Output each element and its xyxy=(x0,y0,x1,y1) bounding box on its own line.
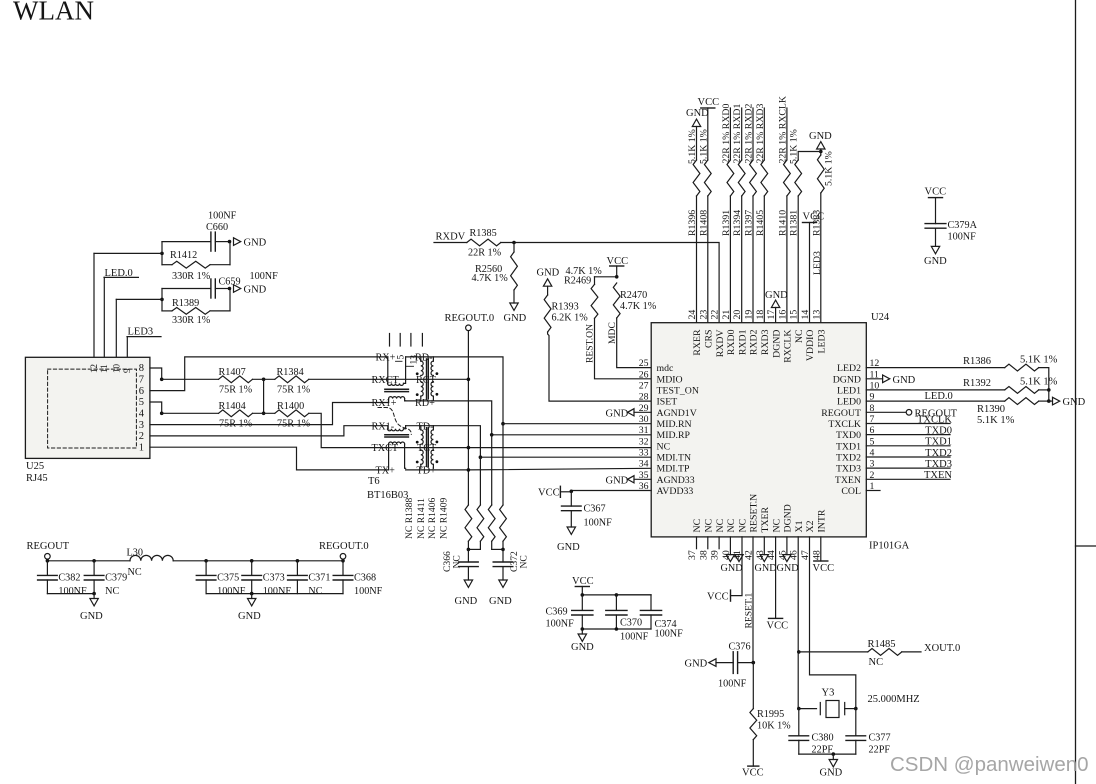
ground GND above R1381/R1383 xyxy=(809,131,832,155)
svg-text:100NF: 100NF xyxy=(546,619,575,630)
sheet border line xyxy=(1075,0,1077,784)
svg-text:5: 5 xyxy=(396,355,406,360)
wire TXD3 pin xyxy=(866,467,950,469)
pin 33 label MDI.TN xyxy=(639,447,691,463)
svg-text:1: 1 xyxy=(139,442,144,453)
svg-text:AVDD33: AVDD33 xyxy=(657,486,694,497)
transformer T6 RX choke winding xyxy=(385,357,409,403)
svg-text:DGND: DGND xyxy=(783,504,794,532)
wire TD- to R1411 xyxy=(479,457,481,505)
junction RXDV/R2560 xyxy=(512,241,516,245)
net label RXD2 / wire above R1397 xyxy=(752,108,754,160)
resistor R2469 xyxy=(591,277,617,319)
wire R1389 loop verticals xyxy=(162,289,230,311)
svg-text:R1995: R1995 xyxy=(757,709,784,720)
pin 38 NC stub xyxy=(707,537,709,549)
svg-text:21: 21 xyxy=(721,310,732,320)
svg-text:22R 1% RXD3: 22R 1% RXD3 xyxy=(755,104,766,164)
transformer T6 TX choke winding xyxy=(385,426,409,470)
svg-text:RESET.1: RESET.1 xyxy=(744,592,755,628)
net label LED3 left xyxy=(127,327,161,338)
svg-text:VDDIO: VDDIO xyxy=(805,330,816,362)
pin 7 label TXCLK xyxy=(828,414,874,430)
junction R1407/R1384 xyxy=(262,378,266,382)
svg-text:TXD0: TXD0 xyxy=(836,430,861,441)
transformer T6 RX transformer windings xyxy=(416,357,438,401)
ground GND at AGND1V pin 29 xyxy=(606,408,652,419)
capacitor C366 (NC) xyxy=(459,549,479,580)
wire pin 42 RESET.N down xyxy=(752,537,754,663)
pin 41 label NC (rotated) xyxy=(732,519,748,560)
resistor R1385 xyxy=(467,239,501,246)
svg-text:75R 1%: 75R 1% xyxy=(219,418,253,429)
resistor R1388 (NC) xyxy=(465,505,472,541)
connector U25 RJ45 body xyxy=(25,357,149,458)
svg-text:NC: NC xyxy=(308,586,322,597)
wire U25 pin1 to TX+ row xyxy=(150,447,388,470)
svg-text:NC: NC xyxy=(692,519,703,533)
svg-text:MDI.TN: MDI.TN xyxy=(657,452,692,463)
svg-text:RD-: RD- xyxy=(415,353,433,364)
svg-text:Y3: Y3 xyxy=(822,688,835,699)
svg-text:VCC: VCC xyxy=(538,488,560,499)
svg-text:C373: C373 xyxy=(263,573,285,584)
svg-text:7: 7 xyxy=(139,375,144,386)
svg-text:R1393: R1393 xyxy=(552,302,579,313)
svg-text:26: 26 xyxy=(639,369,649,380)
capacitor C368 xyxy=(333,561,353,594)
svg-text:L30: L30 xyxy=(127,548,143,559)
svg-text:TEST_ON: TEST_ON xyxy=(657,385,699,396)
resistor R1405 xyxy=(761,160,768,196)
svg-text:28: 28 xyxy=(639,392,649,403)
wire junction down xyxy=(1048,390,1050,401)
svg-text:VCC: VCC xyxy=(742,768,764,779)
svg-text:5.1K 1%: 5.1K 1% xyxy=(1020,377,1058,388)
svg-text:RXCT: RXCT xyxy=(372,375,400,386)
svg-text:DGND: DGND xyxy=(771,330,782,358)
pin 20 label RXD1 (rotated) xyxy=(732,310,748,355)
svg-text:REGOUT: REGOUT xyxy=(821,408,861,419)
svg-text:DGND: DGND xyxy=(833,374,861,385)
junction X1/R1485 xyxy=(797,650,801,654)
pin 19 label RXD2 (rotated) xyxy=(744,310,760,355)
svg-text:COL: COL xyxy=(841,486,861,497)
wire R1406/R1409 join xyxy=(492,541,503,549)
svg-text:TXCLK: TXCLK xyxy=(828,419,861,430)
svg-text:22R 1% RXD0: 22R 1% RXD0 xyxy=(721,104,732,164)
svg-text:R1412: R1412 xyxy=(170,250,197,261)
pin 24 label RXER (rotated) xyxy=(687,310,703,356)
svg-text:R1385: R1385 xyxy=(470,228,497,239)
svg-text:RXD3: RXD3 xyxy=(760,329,771,355)
pin 16 label RXCLK (rotated) xyxy=(777,310,793,363)
wire cap trio bottom bus xyxy=(582,628,651,630)
svg-text:34: 34 xyxy=(639,459,649,470)
pin 40 label NC (rotated) xyxy=(721,519,737,560)
wire AVDD33 pin 36 xyxy=(571,490,651,492)
wire U25 pin3 to RX1+ row xyxy=(150,403,389,425)
svg-text:R1407: R1407 xyxy=(219,367,246,378)
wire rail ground bus left xyxy=(47,593,94,595)
svg-text:16: 16 xyxy=(777,310,788,320)
svg-text:RX+: RX+ xyxy=(376,353,396,364)
junction R1412 left xyxy=(160,252,164,256)
pin 36 label AVDD33 xyxy=(639,481,694,497)
wire U25 pin4 to R1404 xyxy=(162,412,219,414)
wire U25 pin2 to RX1- row xyxy=(150,426,388,436)
svg-text:15: 15 xyxy=(789,310,800,320)
resistor R1400 xyxy=(275,410,309,417)
ground GND crystal xyxy=(820,754,843,778)
svg-text:RCT: RCT xyxy=(416,375,437,386)
wire R1400 to TXCT row xyxy=(309,413,651,447)
wire TXD2 pin xyxy=(866,456,950,458)
resistor R1412 xyxy=(162,261,230,268)
pin 39 label NC (rotated) xyxy=(710,519,726,560)
resistor R1410 xyxy=(784,160,791,196)
svg-text:LED.0: LED.0 xyxy=(925,391,953,402)
pin 26 label MDIO xyxy=(639,369,683,385)
ground GND below R2560 xyxy=(504,290,527,324)
ground GND cap trio xyxy=(571,629,594,653)
ground GND at DGND pin 17 xyxy=(765,290,788,323)
resistor R1411 (NC) xyxy=(477,505,484,541)
svg-text:75R 1%: 75R 1% xyxy=(219,384,253,395)
wire R1485 to XOUT.0 xyxy=(902,651,921,653)
svg-text:14: 14 xyxy=(800,310,811,320)
pin 44 label NC (rotated) xyxy=(766,519,782,560)
svg-text:R1390: R1390 xyxy=(977,404,1005,415)
junction R1409 bottom xyxy=(501,548,505,552)
wire R1381 top bend xyxy=(798,152,821,161)
svg-text:TXD0: TXD0 xyxy=(925,425,952,436)
pin 42 label RESET.N (rotated) xyxy=(744,494,760,560)
svg-text:VCC: VCC xyxy=(698,97,720,108)
ground GND left group xyxy=(80,594,103,622)
wire R1391 to pin 21 xyxy=(729,196,731,323)
svg-text:22R 1% RXD2: 22R 1% RXD2 xyxy=(744,104,755,164)
svg-text:100NF: 100NF xyxy=(655,629,684,640)
svg-text:REGOUT.0: REGOUT.0 xyxy=(445,313,495,324)
svg-text:RXER: RXER xyxy=(692,329,703,356)
junction C660 right xyxy=(228,240,232,244)
svg-text:R1392: R1392 xyxy=(963,378,991,389)
capacitor C369 xyxy=(572,595,593,629)
svg-text:NC: NC xyxy=(726,519,737,533)
svg-text:MID.RP: MID.RP xyxy=(657,430,691,441)
pin 9 label LED0 xyxy=(837,392,874,408)
ground GND below C367 xyxy=(557,527,580,553)
transformer T6 isolation dashed curve xyxy=(378,408,411,435)
svg-text:VCC: VCC xyxy=(803,212,825,223)
wire R1412 loop verticals xyxy=(162,242,230,265)
junction RD+ branch to MID.RP xyxy=(490,433,494,437)
svg-text:30: 30 xyxy=(639,414,649,425)
svg-text:mdc: mdc xyxy=(657,363,675,374)
pin 39 NC stub xyxy=(718,537,720,549)
svg-text:100NF: 100NF xyxy=(217,586,246,597)
capacitor C367 xyxy=(562,492,582,527)
svg-text:RXD0: RXD0 xyxy=(726,329,737,355)
svg-text:GND: GND xyxy=(571,642,594,653)
svg-text:NC R1388: NC R1388 xyxy=(404,497,415,539)
ground GND right group xyxy=(238,594,261,622)
wire RD+ to R1406 xyxy=(491,435,493,505)
svg-text:R1400: R1400 xyxy=(277,401,304,412)
svg-text:9: 9 xyxy=(122,368,132,373)
ground GND at C660 xyxy=(234,238,267,249)
pin 43 label TXER (rotated) xyxy=(755,506,771,560)
svg-text:GND: GND xyxy=(537,268,560,279)
svg-text:38: 38 xyxy=(698,550,709,560)
wire R1995 to VCC xyxy=(752,740,754,767)
capacitor C370 xyxy=(606,595,627,629)
svg-text:NC: NC xyxy=(794,330,805,344)
svg-text:REGOUT.0: REGOUT.0 xyxy=(319,541,369,552)
pin 1 COL stub xyxy=(866,490,880,492)
svg-text:2: 2 xyxy=(139,431,144,442)
svg-text:AGND33: AGND33 xyxy=(657,475,695,486)
svg-text:25.000MHZ: 25.000MHZ xyxy=(868,694,920,705)
pin 38 label NC (rotated) xyxy=(698,519,714,560)
pin 45 GND stub xyxy=(783,537,791,562)
svg-text:MDIO: MDIO xyxy=(657,374,683,385)
svg-text:10K 1%: 10K 1% xyxy=(757,721,791,732)
ground GND below C366 xyxy=(455,580,478,607)
wire crystal ground bus xyxy=(799,753,856,755)
wire TXD0 pin xyxy=(866,434,950,436)
svg-text:22R 1% RXD1: 22R 1% RXD1 xyxy=(732,104,743,164)
wire R1381 to NC pin 15 xyxy=(797,196,799,323)
svg-text:75R 1%: 75R 1% xyxy=(277,384,311,395)
resistor R1396 xyxy=(693,160,700,196)
pin 11 label DGND xyxy=(833,369,879,385)
power VCC pin 44 xyxy=(767,618,789,631)
resistor R1409 (NC) xyxy=(500,505,507,541)
wire R1410 to RXCLK pin 16 xyxy=(786,196,788,323)
svg-text:LED2: LED2 xyxy=(837,363,861,374)
svg-text:C370: C370 xyxy=(620,618,642,629)
svg-text:5.1K 1%: 5.1K 1% xyxy=(789,129,800,164)
svg-text:22R 1%: 22R 1% xyxy=(468,248,502,259)
svg-text:NC: NC xyxy=(128,567,142,578)
svg-text:TXD3: TXD3 xyxy=(925,459,952,470)
wire REGOUT pin 8 xyxy=(866,411,906,413)
resistor R1394 xyxy=(738,160,745,196)
svg-text:GND: GND xyxy=(504,313,527,324)
svg-text:TXD2: TXD2 xyxy=(836,452,861,463)
junction VCC/R2469/R2470 xyxy=(615,275,619,279)
svg-text:C371: C371 xyxy=(308,573,330,584)
svg-text:GND: GND xyxy=(820,768,843,779)
wire R1394 to pin 20 xyxy=(741,196,743,323)
pin 22 label RXDV (rotated) xyxy=(710,310,726,358)
svg-text:INTR: INTR xyxy=(817,509,828,532)
junction REGOUT/TCT xyxy=(467,446,471,450)
svg-text:RESET.N: RESET.N xyxy=(749,494,760,533)
pin 13 label LED3 (rotated) xyxy=(811,310,827,354)
crystal Y3 xyxy=(799,701,856,718)
resistor R1384 xyxy=(275,376,309,383)
power VCC pin 48 xyxy=(813,561,835,574)
svg-text:R1485: R1485 xyxy=(868,639,896,650)
wire pin 41 to VCC xyxy=(731,537,743,596)
svg-text:GND: GND xyxy=(755,563,777,574)
wire RJ45 pin12 to R1412 xyxy=(94,253,162,357)
svg-text:NC: NC xyxy=(105,586,119,597)
svg-text:100NF: 100NF xyxy=(58,586,87,597)
wire LED2 pin 12 to R1386 xyxy=(866,367,1004,369)
junction crystal gnd xyxy=(832,752,836,756)
svg-text:330R 1%: 330R 1% xyxy=(172,271,211,282)
svg-text:GND: GND xyxy=(924,256,947,267)
wire REGOUT.0 vertical xyxy=(467,331,469,505)
svg-text:GND: GND xyxy=(80,611,103,622)
svg-text:NC: NC xyxy=(771,519,782,533)
svg-text:20: 20 xyxy=(732,310,743,320)
capacitor C374 xyxy=(616,595,661,629)
power VCC at AVDD33 xyxy=(538,486,571,498)
pin 6 label TXD0 xyxy=(836,425,875,441)
capacitor C379 xyxy=(84,561,104,594)
svg-text:100NF: 100NF xyxy=(250,271,279,282)
capacitor C373 xyxy=(242,561,262,594)
capacitor C380 xyxy=(789,709,809,755)
resistor R1406 (NC) xyxy=(488,505,495,541)
svg-text:TXD2: TXD2 xyxy=(925,448,952,459)
resistor R1393 xyxy=(544,295,551,332)
svg-text:C379: C379 xyxy=(105,573,127,584)
wire pin 47 X2 down xyxy=(810,537,856,709)
svg-text:5: 5 xyxy=(139,397,144,408)
pin 37 label NC (rotated) xyxy=(687,519,703,560)
svg-text:C377: C377 xyxy=(869,733,891,744)
pin 34 label MDI.TP xyxy=(639,459,690,475)
svg-text:X1: X1 xyxy=(794,520,805,532)
junction rail xyxy=(296,559,300,563)
svg-text:GND: GND xyxy=(765,290,788,301)
wire U25 pin5 jog to pin4 xyxy=(150,402,162,413)
capacitor C376 xyxy=(716,652,753,674)
power VCC above R1408 xyxy=(698,97,720,160)
pin 46 label X1 (rotated) xyxy=(789,520,805,560)
junction trio C370 xyxy=(615,593,619,597)
svg-text:17: 17 xyxy=(766,310,777,320)
svg-text:NC: NC xyxy=(869,657,884,668)
svg-text:NC R1411: NC R1411 xyxy=(416,498,427,539)
ground GND above R1396 xyxy=(686,108,709,160)
junction trio bottom C370 xyxy=(615,627,619,631)
svg-text:4: 4 xyxy=(139,409,145,420)
wire cap trio top bus xyxy=(582,594,651,596)
transformer T6 pin number 5 xyxy=(396,355,407,362)
wire TD- run xyxy=(406,426,652,458)
svg-text:LED3: LED3 xyxy=(817,329,828,353)
svg-text:U25: U25 xyxy=(26,461,44,472)
wire RXDV stub xyxy=(434,242,467,244)
wire R1392 to junction xyxy=(1039,389,1049,391)
wire TD+ to MDI.TP xyxy=(468,468,651,470)
pin 2 label TXEN xyxy=(835,470,875,486)
svg-text:100NF: 100NF xyxy=(584,518,613,529)
svg-text:T6: T6 xyxy=(368,476,380,487)
svg-text:CRS: CRS xyxy=(704,330,715,349)
pin 17 label DGND (rotated) xyxy=(766,310,782,358)
net label RXD0 / wire above R1391 xyxy=(729,108,731,160)
svg-text:37: 37 xyxy=(687,550,698,560)
wire RXCT/RCT row to REGOUT junction xyxy=(309,378,469,380)
svg-text:RD+: RD+ xyxy=(415,398,435,409)
svg-text:RX1-: RX1- xyxy=(372,421,395,432)
ground GND at AGND33 pin 35 xyxy=(606,475,652,486)
junction rail xyxy=(204,559,208,563)
wire TXEN pin xyxy=(866,478,950,480)
wire rail ground bus right xyxy=(206,593,343,595)
svg-text:10: 10 xyxy=(112,364,122,374)
transformer T6 top pin stubs xyxy=(390,334,423,347)
wire R2470 to mdc pin 25 xyxy=(617,318,652,368)
junction R1392/R1386 xyxy=(1047,388,1051,392)
wire R1405 to pin 18 xyxy=(763,196,765,323)
svg-text:VCC: VCC xyxy=(925,187,947,198)
wire TXD1 pin xyxy=(866,445,950,447)
wire RJ45 pin10 to R1389 xyxy=(116,299,162,357)
pin 47 label X2 (rotated) xyxy=(800,520,816,560)
ground GND at C376 xyxy=(685,659,717,670)
svg-text:C368: C368 xyxy=(354,573,376,584)
svg-text:LED3: LED3 xyxy=(128,327,154,338)
pin 48 VCC stub xyxy=(820,537,822,561)
junction trio C369 xyxy=(581,593,585,597)
ground GND below C372 xyxy=(489,580,512,607)
svg-text:19: 19 xyxy=(744,310,755,320)
svg-text:RXDV: RXDV xyxy=(436,232,466,243)
svg-text:LED3: LED3 xyxy=(812,251,823,275)
svg-text:4.7K 1%: 4.7K 1% xyxy=(620,301,657,312)
pin 14 label VDDIO (rotated) xyxy=(800,310,816,361)
svg-text:C382: C382 xyxy=(58,573,80,584)
ground GND pin 41 triangle xyxy=(735,555,743,562)
junction gnd bus C373 xyxy=(250,592,254,596)
junction rail xyxy=(341,559,345,563)
svg-text:XOUT.0: XOUT.0 xyxy=(924,643,960,654)
sheet border tick xyxy=(1076,545,1096,547)
wire R1388/R1411 join xyxy=(468,541,480,549)
wire RD+ run xyxy=(406,401,652,435)
svg-text:RXCLK: RXCLK xyxy=(783,330,794,363)
ground GND right resistors xyxy=(1049,397,1086,408)
wire pin 46 X1 down xyxy=(797,537,799,709)
svg-text:RJ45: RJ45 xyxy=(26,473,48,484)
power VCC cap trio xyxy=(572,576,594,595)
resistor R1408 xyxy=(704,160,711,196)
svg-text:8: 8 xyxy=(139,363,144,374)
pin 37 NC stub xyxy=(696,537,698,549)
pin 31 label MID.RP xyxy=(639,425,691,441)
svg-text:TXEN: TXEN xyxy=(924,470,952,481)
pin 48 label INTR (rotated) xyxy=(811,509,827,560)
svg-text:GND: GND xyxy=(606,475,629,486)
svg-text:LED1: LED1 xyxy=(837,385,861,396)
resistor R2470 xyxy=(613,283,620,318)
pin 32 label NC xyxy=(639,436,670,452)
transformer T6 pin number 13 xyxy=(406,355,419,367)
power VCC at VDDIO pin 14 xyxy=(803,212,825,323)
svg-text:GND: GND xyxy=(238,611,261,622)
svg-text:330R 1%: 330R 1% xyxy=(172,315,211,326)
net label RXCLK / wire above R1410 xyxy=(786,108,788,160)
